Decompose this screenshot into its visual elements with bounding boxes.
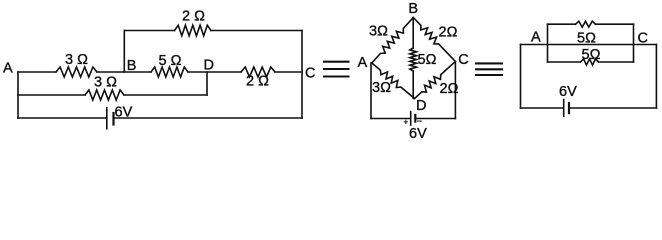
wire top loop top edge right bbox=[596, 23, 634, 25]
svg-text:6V: 6V bbox=[115, 105, 133, 121]
resistor 5Ω (bridge galvanometer arm) bbox=[410, 48, 417, 71]
svg-text:3 Ω: 3 Ω bbox=[65, 52, 88, 68]
battery 6V long plate (bridge) bbox=[410, 112, 412, 125]
battery 6V short plate (right circuit) bbox=[568, 103, 570, 113]
wire bridge battery to bottom right bbox=[415, 118, 455, 120]
battery 6V short plate (bridge) bbox=[414, 115, 416, 122]
wire 3Ω to 5Ω through node B bbox=[97, 71, 151, 73]
svg-text:5 Ω: 5 Ω bbox=[159, 53, 182, 69]
svg-text:5Ω: 5Ω bbox=[418, 52, 437, 68]
resistor 2Ω (D-C) bbox=[241, 67, 275, 77]
wire right vertical C side bbox=[301, 31, 303, 119]
wire top branch right segment bbox=[211, 30, 302, 32]
svg-text:6V: 6V bbox=[409, 126, 427, 142]
resistor 2Ω (top branch B-C) bbox=[175, 25, 212, 36]
svg-text:D: D bbox=[416, 98, 426, 114]
wire top branch left segment bbox=[124, 30, 174, 32]
svg-text:+: + bbox=[404, 118, 409, 127]
wire bottom loop bottom edge right bbox=[599, 61, 634, 63]
wire bottom loop left vertical bbox=[547, 45, 549, 63]
resistor 3Ω (upper branch A-B) bbox=[56, 67, 97, 77]
wire 5Ω to 2Ω through node D bbox=[188, 71, 241, 73]
svg-text:A: A bbox=[531, 30, 541, 46]
svg-text:C: C bbox=[458, 52, 468, 68]
wire lower branch left segment bbox=[18, 94, 85, 96]
svg-text:5Ω: 5Ω bbox=[582, 47, 601, 63]
resistor 5Ω (right circuit bottom) bbox=[581, 59, 599, 65]
svg-text:2Ω: 2Ω bbox=[440, 81, 459, 97]
resistor 3Ω (lower branch A-D) bbox=[85, 90, 124, 100]
svg-text:2 Ω: 2 Ω bbox=[246, 74, 269, 90]
wire bottom left to battery bbox=[18, 117, 107, 119]
svg-text:3Ω: 3Ω bbox=[369, 24, 388, 40]
node B riser to top branch bbox=[123, 31, 125, 73]
bridge arm A-B with resistor 3Ω bbox=[372, 18, 414, 64]
wire bottom loop bottom edge left bbox=[548, 61, 581, 63]
wire outer left vertical bbox=[520, 45, 522, 109]
resistor 5Ω (right circuit top) bbox=[576, 21, 596, 27]
wire right circuit rail A-C bbox=[521, 44, 657, 46]
wire node A to 3Ω bbox=[18, 71, 56, 73]
bridge arm B-C with resistor 2Ω bbox=[413, 18, 455, 62]
battery 6V long plate (left circuit) bbox=[106, 108, 108, 129]
bridge arm A-D with resistor 3Ω bbox=[372, 63, 415, 99]
svg-text:A: A bbox=[358, 55, 368, 71]
wire battery to bottom right (right circuit) bbox=[569, 107, 656, 109]
bridge arm D-C with resistor 2Ω bbox=[415, 62, 456, 99]
svg-text:2 Ω: 2 Ω bbox=[182, 9, 205, 25]
svg-text:B: B bbox=[127, 58, 137, 74]
svg-text:3Ω: 3Ω bbox=[372, 80, 391, 96]
wire bottom loop right vertical bbox=[633, 45, 635, 63]
svg-text:B: B bbox=[408, 1, 418, 17]
svg-text:C: C bbox=[305, 66, 315, 82]
wire bottom left to battery (right circuit) bbox=[521, 107, 564, 109]
svg-text:2Ω: 2Ω bbox=[439, 25, 458, 41]
svg-text:5Ω: 5Ω bbox=[577, 30, 596, 46]
wire left vertical from A down to bottom bbox=[17, 72, 19, 118]
svg-text:A: A bbox=[3, 61, 13, 77]
battery 6V short plate (left circuit) bbox=[112, 113, 114, 125]
svg-text:C: C bbox=[638, 31, 648, 47]
wire outer right vertical bbox=[655, 45, 657, 109]
wire lower branch right segment bbox=[124, 94, 207, 96]
equivalence symbol between left and middle circuits bbox=[323, 62, 350, 77]
resistor 5Ω (B-D) bbox=[151, 67, 188, 77]
wire bridge C down bbox=[454, 62, 456, 119]
svg-text:3 Ω: 3 Ω bbox=[94, 75, 117, 91]
wire bridge 5Ω down to D bbox=[412, 71, 414, 99]
wire bridge B down to 5Ω bbox=[412, 18, 414, 49]
wire top loop top edge left bbox=[548, 23, 576, 25]
battery 6V long plate (right circuit) bbox=[563, 100, 565, 117]
wire top loop right vertical bbox=[633, 24, 635, 44]
wire 2Ω to node C bbox=[275, 71, 302, 73]
node D drop to lower branch bbox=[206, 72, 208, 95]
wire battery to bottom right corner bbox=[114, 117, 303, 119]
svg-text:6V: 6V bbox=[559, 84, 577, 100]
svg-text:−: − bbox=[417, 116, 422, 126]
wire bridge A down bbox=[370, 63, 372, 119]
equivalence symbol between middle and right circuits bbox=[475, 63, 503, 75]
wire bridge bottom left to battery bbox=[371, 118, 411, 120]
svg-text:D: D bbox=[204, 58, 214, 74]
wire top loop left vertical bbox=[547, 24, 549, 44]
